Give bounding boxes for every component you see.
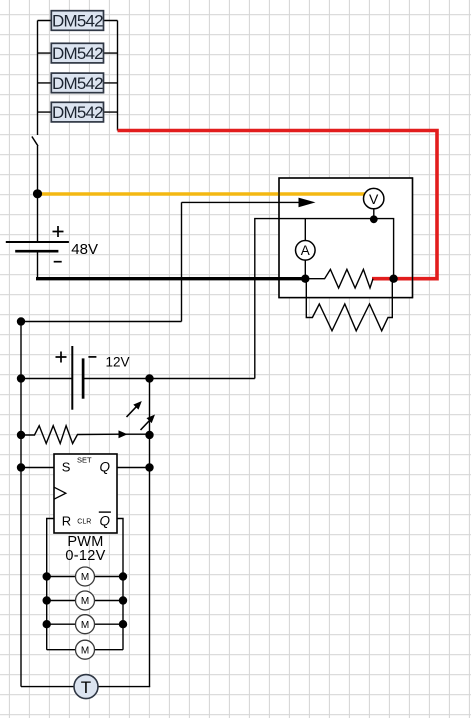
svg-text:CLR: CLR xyxy=(77,519,91,526)
voltmeter V1 xyxy=(364,188,384,219)
node: motor2 right xyxy=(119,596,127,604)
adjustment arrow 1 xyxy=(127,401,142,417)
motor row 1 wire xyxy=(47,576,123,578)
svg-text:0-12V: 0-12V xyxy=(65,548,105,564)
node: motor1 right xyxy=(119,572,127,580)
node: right rail R3 xyxy=(145,431,153,439)
ammeter A1 xyxy=(296,241,316,261)
motor row 3 wire xyxy=(47,623,123,625)
node: left rail top xyxy=(17,317,25,325)
wire: battery B1 bottom lead xyxy=(37,251,39,277)
wire: left rail xyxy=(20,322,22,687)
battery B1 minus sign xyxy=(54,261,62,263)
wire: right bus of driver stack with stubs xyxy=(104,21,118,131)
wire: Q output xyxy=(117,467,150,469)
svg-text:DM542: DM542 xyxy=(52,103,103,122)
battery B2 minus sign xyxy=(88,356,96,358)
wire: left bus of driver stack with stubs xyxy=(38,21,52,243)
motor row 2 wire xyxy=(47,600,123,602)
wire: ammeter branch xyxy=(304,219,306,279)
resistor R3 with arrow row xyxy=(21,426,150,444)
wire: right rail xyxy=(149,379,151,687)
wire: sense line from 12V rail up and across meter box xyxy=(255,219,394,379)
node: motor3 right xyxy=(119,620,127,628)
adjustment arrow 2 xyxy=(141,415,156,431)
motor M1 xyxy=(76,567,95,586)
node: voltmeter tap xyxy=(370,215,378,223)
arrowhead inline on R3 row xyxy=(119,430,128,438)
node: right rail Q xyxy=(145,463,153,471)
svg-text:Q: Q xyxy=(100,460,111,475)
svg-text:A: A xyxy=(301,243,310,258)
svg-text:V: V xyxy=(369,191,379,207)
svg-text:M: M xyxy=(81,620,89,631)
battery B2 plus sign xyxy=(56,352,67,363)
svg-text:SET: SET xyxy=(77,456,92,465)
node: left rail R3 xyxy=(17,431,25,439)
wire: R clear branch xyxy=(47,519,123,650)
battery B1 plus sign xyxy=(53,226,64,237)
driver U3 DM542 xyxy=(51,73,103,93)
node: motor1 left xyxy=(43,572,51,580)
wire: yellow signal from switch node to voltmeter xyxy=(38,192,367,195)
node: ammeter / shunt left xyxy=(301,275,309,283)
arrowhead of signal line xyxy=(299,198,316,208)
driver U2 DM542 xyxy=(51,43,103,63)
svg-text:S: S xyxy=(62,459,71,474)
wire: arrow signal line into meter box xyxy=(21,202,300,321)
battery B2 12V plates xyxy=(72,346,83,410)
thermometer T1 xyxy=(74,675,98,699)
node: right rail 12V xyxy=(145,374,153,382)
driver U4 DM542 xyxy=(51,102,103,122)
svg-text:M: M xyxy=(81,596,89,607)
svg-text:48V: 48V xyxy=(71,241,98,258)
svg-text:12V: 12V xyxy=(106,355,130,370)
svg-text:T: T xyxy=(81,678,91,697)
svg-text:DM542: DM542 xyxy=(52,74,103,93)
node: shunt right / red wire xyxy=(389,275,397,283)
battery B1 48V plates xyxy=(6,242,69,251)
svg-text:DM542: DM542 xyxy=(52,44,103,63)
driver U1 DM542 xyxy=(51,11,103,31)
node: motor3 left xyxy=(43,620,51,628)
meter enclosure box outline overlay xyxy=(279,178,413,298)
motor M3 xyxy=(76,615,95,634)
wire: 12V row xyxy=(21,378,255,380)
svg-text:M: M xyxy=(81,645,89,656)
motor row 4 wire xyxy=(47,649,123,651)
motor M2 xyxy=(76,591,95,610)
node: left rail S xyxy=(17,463,25,471)
svg-text:DM542: DM542 xyxy=(52,12,103,31)
wire: thick ground bus from 48V to ammeter node xyxy=(36,277,305,280)
switch SW1 blade xyxy=(32,137,38,147)
wire: red positive supply loop xyxy=(118,131,438,279)
resistor R2 load xyxy=(306,279,392,331)
svg-text:M: M xyxy=(81,572,89,583)
wire: S input xyxy=(21,467,54,469)
flip-flop U5 PWM box xyxy=(54,454,117,533)
resistor R1 shunt xyxy=(305,269,373,288)
wire: bottom rail through thermometer xyxy=(21,686,150,688)
meter enclosure box xyxy=(279,178,413,298)
svg-text:R: R xyxy=(62,513,71,528)
node: motor2 left xyxy=(43,596,51,604)
svg-text:Q: Q xyxy=(100,514,111,529)
node: left rail 12V xyxy=(17,374,25,382)
node: switch / yellow junction xyxy=(33,189,42,198)
motor M4 xyxy=(76,640,95,659)
